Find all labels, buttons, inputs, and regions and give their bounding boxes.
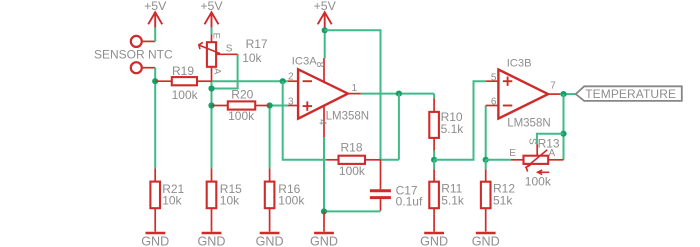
op-amp IC3B <box>498 70 548 119</box>
wire +5V to pin8 <box>324 28 326 59</box>
pad SENSOR NTC top <box>131 36 142 47</box>
pad SENSOR NTC bottom <box>131 62 142 73</box>
wire R10 bottom to node <box>433 151 435 160</box>
net flag TEMPERATURE <box>576 86 682 101</box>
wire wiper branch <box>537 134 564 145</box>
node junction R20-right <box>267 102 273 108</box>
wire R20 right down to R16 <box>269 106 271 169</box>
resistor R10 <box>429 98 439 150</box>
supply +5V (middle) <box>205 12 219 27</box>
svg-text:S: S <box>226 44 233 55</box>
svg-text:GND: GND <box>420 235 448 247</box>
svg-text:E: E <box>509 148 516 159</box>
svg-text:2: 2 <box>288 71 294 82</box>
svg-text:100k: 100k <box>525 174 552 188</box>
wire node A down column <box>211 81 213 168</box>
wire pin2 net from node A to op-amp <box>212 80 288 82</box>
wire output pin1 <box>361 93 434 95</box>
wire node to R11 <box>433 160 435 170</box>
pin 2 stub IC3A <box>288 80 298 82</box>
pin 4 stub IC3A <box>323 106 325 137</box>
wire feedback down-left <box>283 81 327 160</box>
svg-text:0.1uf: 0.1uf <box>396 194 423 208</box>
node junction pin2 feedback <box>280 78 286 84</box>
ground GND (R12) <box>476 232 496 234</box>
wire pad2 down to node <box>154 68 156 82</box>
svg-text:A: A <box>212 68 223 75</box>
wire divider mid to pin5 <box>434 81 486 160</box>
supply +5V (right) <box>318 12 332 27</box>
wire pin4 to ground node <box>323 137 325 211</box>
pin 3 stub IC3A <box>288 105 298 107</box>
svg-text:+5V: +5V <box>200 0 223 13</box>
wire output pin7 to flag <box>560 93 576 95</box>
resistor R18 <box>326 156 380 164</box>
ground GND (R21) <box>146 232 166 234</box>
capacitor C17 <box>370 160 391 211</box>
resistor R19 <box>155 77 211 85</box>
svg-text:10k: 10k <box>242 51 262 65</box>
svg-text:8: 8 <box>314 62 326 68</box>
node junction +5V pin8 <box>322 27 328 33</box>
node junction R19-left <box>152 78 158 84</box>
svg-text:1: 1 <box>352 83 358 94</box>
svg-text:100k: 100k <box>228 109 255 123</box>
supply +5V (left) <box>148 12 162 27</box>
svg-text:R19: R19 <box>172 64 194 78</box>
wire feedback right segment <box>381 159 399 161</box>
potentiometer R13 <box>511 145 564 175</box>
svg-text:E: E <box>211 33 222 39</box>
pin 6 stub IC3B <box>486 105 499 107</box>
node junction output pin7 <box>560 91 566 97</box>
svg-text:51k: 51k <box>493 193 513 207</box>
svg-text:R13: R13 <box>538 136 560 150</box>
resistor R12 <box>481 169 491 231</box>
svg-text:GND: GND <box>472 235 500 247</box>
svg-text:5.1k: 5.1k <box>441 193 465 207</box>
svg-text:SENSOR NTC: SENSOR NTC <box>94 47 173 61</box>
svg-text:IC3B: IC3B <box>507 57 532 69</box>
node junction pin6 net <box>483 157 489 163</box>
wire node to R12 <box>485 160 487 170</box>
svg-text:IC3A: IC3A <box>292 56 317 68</box>
node junction ground C17 <box>321 208 327 214</box>
svg-text:R18: R18 <box>341 141 363 155</box>
svg-text:R17: R17 <box>246 37 268 51</box>
svg-text:5: 5 <box>491 72 497 83</box>
resistor R21 <box>150 168 160 231</box>
wire pin6 down to node <box>485 106 487 160</box>
wire output down to R13 A <box>563 94 565 160</box>
svg-text:GND: GND <box>198 235 226 247</box>
ground GND (IC3A pin4 / C17) <box>314 211 334 233</box>
wire output corner into R10 <box>433 94 435 99</box>
wire node to R13 E <box>486 159 511 161</box>
svg-text:10k: 10k <box>220 194 240 208</box>
potentiometer R17 <box>199 28 238 82</box>
svg-text:5.1k: 5.1k <box>441 122 465 136</box>
node junction divider mid <box>431 157 437 163</box>
svg-text:+5V: +5V <box>314 0 337 13</box>
wire pad1 stub <box>142 40 156 42</box>
svg-text:100k: 100k <box>278 193 305 207</box>
node junction output feedback <box>396 91 402 97</box>
op-amp IC3A <box>298 69 348 118</box>
resistor R11 <box>429 169 439 231</box>
svg-text:LM358N: LM358N <box>507 117 550 129</box>
svg-text:+5V: +5V <box>144 0 167 13</box>
wire feedback vertical from output <box>398 94 400 160</box>
resistor R15 <box>207 168 217 231</box>
wire node down to R21 <box>154 81 156 168</box>
svg-text:R20: R20 <box>231 87 253 101</box>
node junction R20-left <box>208 102 214 108</box>
svg-text:GND: GND <box>310 235 338 247</box>
svg-text:100k: 100k <box>172 88 199 102</box>
svg-text:S: S <box>527 138 538 145</box>
ground GND (R16) <box>260 232 280 234</box>
pin 7 stub IC3B <box>548 93 560 95</box>
svg-text:10k: 10k <box>162 194 182 208</box>
node junction wiper branch <box>560 131 566 137</box>
svg-text:3: 3 <box>288 96 294 107</box>
wire +5V branch right <box>325 30 381 160</box>
wire pot wiper S branch <box>212 54 238 88</box>
svg-text:4: 4 <box>317 119 329 125</box>
wire +5V to pad1 <box>154 28 156 42</box>
svg-text:100k: 100k <box>339 164 366 178</box>
node junction wiper tie <box>208 85 214 91</box>
svg-text:GND: GND <box>141 235 169 247</box>
ground GND (R15) <box>202 232 222 234</box>
svg-text:TEMPERATURE: TEMPERATURE <box>585 87 676 101</box>
wire pad2 stub <box>142 67 156 69</box>
ground GND (R11) <box>424 232 444 234</box>
svg-text:GND: GND <box>256 235 284 247</box>
wire C17 bottom to ground node <box>324 210 381 212</box>
pin 5 stub IC3B <box>486 80 498 82</box>
svg-text:7: 7 <box>550 81 556 92</box>
resistor R20 <box>212 101 270 109</box>
resistor R16 <box>265 168 275 231</box>
svg-text:6: 6 <box>491 97 497 108</box>
wire R20 right to pin3 <box>270 105 288 107</box>
pin 1 stub IC3A <box>348 93 361 95</box>
pin 8 stub IC3A <box>323 58 325 82</box>
svg-text:LM358N: LM358N <box>326 111 369 123</box>
